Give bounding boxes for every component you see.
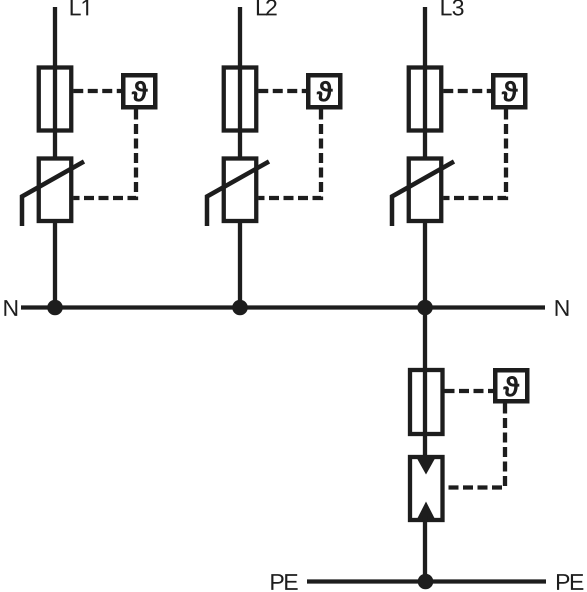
thermal disconnect monitor box T2 (L2) (308, 75, 340, 107)
junction node L2-N (232, 300, 248, 316)
label L1 (71, 0, 89, 15)
N bus wire (21, 305, 545, 309)
thermal disconnect monitor box T3 (L3) (493, 75, 525, 107)
thermal disconnect monitor box T1 (L1) (123, 75, 155, 107)
wire L2 vertical (top to varistor) (238, 7, 242, 158)
wire L3 vertical (top to varistor) (423, 7, 427, 158)
junction node L1-N (47, 300, 63, 316)
wire L1 vertical (varistor to N bus) (53, 223, 57, 310)
dashed link fuse F4 to T4 (445, 389, 494, 393)
node N label left (4, 300, 17, 316)
fuse disconnector F1 on L1 (39, 68, 72, 131)
dashed link fuse F2 to T2 (258, 89, 306, 93)
dashed link T3 to varistor RV3 (443, 110, 506, 199)
varistor RV2 on L2 (207, 159, 269, 227)
label L2 (257, 0, 277, 15)
varistor RV1 on L1 (22, 159, 84, 227)
fuse disconnector F3 on L3 (409, 68, 442, 131)
wire L1 vertical (top to varistor) (53, 7, 57, 158)
wire L3 vertical (varistor to N bus) (423, 223, 427, 310)
junction node GDT-PE bus (418, 574, 434, 590)
node PE label left (271, 574, 297, 590)
fuse disconnector F2 on L2 (224, 68, 257, 131)
dashed link T1 to varistor RV1 (73, 110, 136, 199)
PE bus wire (307, 579, 546, 583)
junction node L3/N bus (417, 300, 433, 316)
wire gas discharge tube to PE bus (423, 516, 427, 582)
label L3 (441, 0, 463, 16)
gas discharge tube GDT1 (spark gap N-PE) (410, 457, 443, 520)
varistor RV3 on L3 (392, 159, 454, 227)
wire N bus down to gas discharge tube (423, 308, 427, 462)
dashed link T2 to varistor RV2 (258, 110, 321, 199)
dashed link T4 to gas discharge tube (445, 404, 506, 488)
dashed link fuse F1 to T1 (73, 89, 121, 93)
node N label right (556, 300, 569, 316)
fuse disconnector F4 (N-PE branch) (410, 370, 443, 434)
dashed link fuse F3 to T3 (443, 89, 491, 93)
node PE label right (557, 574, 583, 590)
wire L2 vertical (varistor to N bus) (238, 223, 242, 310)
thermal disconnect monitor box T4 (N-PE branch) (495, 370, 527, 401)
